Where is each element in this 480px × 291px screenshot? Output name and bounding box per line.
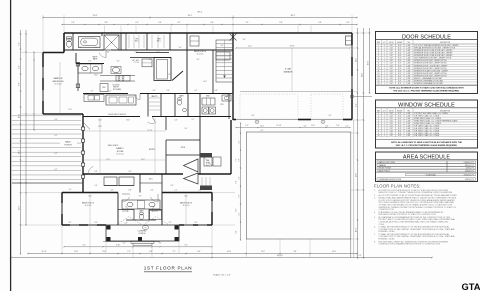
floor plan notes (374, 183, 458, 245)
svg-text:WIDTH: WIDTH (389, 110, 394, 112)
svg-text:528 SQ. FT.: 528 SQ. FT. (465, 170, 475, 172)
left dimension chain 2 (25, 30, 27, 225)
family room internal dim vertical b (154, 118, 156, 174)
kitchen counter lines (100, 75, 135, 77)
exterior wall wing right (211, 193, 213, 226)
svg-text:THK: THK (407, 110, 410, 112)
svg-text:HEIGHT: HEIGHT (397, 110, 402, 112)
svg-text:4.: 4. (374, 212, 376, 214)
exterior wall right mid section (230, 120, 232, 174)
svg-text:HEIGHT: HEIGHT (397, 42, 402, 44)
svg-text:DESCRIPTION: DESCRIPTION (440, 42, 450, 44)
diagonal entry wall (172, 71, 183, 81)
exterior wall wing top-right shoulder (162, 192, 212, 194)
svg-text:10: 10 (378, 135, 380, 137)
garage internal dim vertical (291, 48, 293, 91)
driveway right edge extension (350, 239, 352, 258)
svg-text:S.H. VINYL CLAD - U.L. LOW-E: S.H. VINYL CLAD - U.L. LOW-E (414, 134, 440, 137)
garage bonus room line (240, 91, 352, 93)
svg-text:1.: 1. (374, 190, 376, 192)
porch columns on family wall (81, 127, 85, 131)
svg-text:3.: 3. (374, 198, 376, 200)
left dimension chain 3 (33, 52, 35, 130)
door schedule table (376, 32, 478, 94)
right dimension chain (357, 28, 359, 258)
svg-text:NOTE: ALL EXTERIOR DOORS TO HA: NOTE: ALL EXTERIOR DOORS TO HAVE U-FACTO… (389, 86, 464, 89)
svg-text:HEIGHTS TO BE 8'-0" TONIGHT TH: HEIGHTS TO BE 8'-0" TONIGHT THESE NOTED … (379, 191, 454, 194)
entry door arc (152, 117, 156, 123)
fireplace triangle lower (184, 173, 199, 184)
fireplace hatched wall lower (200, 186, 212, 191)
toilet master (67, 38, 72, 41)
bottom dimension line lower (11, 257, 432, 259)
svg-text:1-3/4": 1-3/4" (406, 135, 411, 137)
wic shelf lines lower right (201, 177, 203, 190)
exterior wall master left (42, 53, 44, 115)
garage entry door arc (232, 93, 234, 100)
window wing left wall (61, 203, 63, 214)
exterior wall master bath left (63, 33, 65, 53)
windows wing bottom wall (70, 224, 79, 226)
garage overhead door dashed panel 2 (311, 94, 343, 119)
svg-text:CODE.: CODE. (379, 224, 385, 226)
svg-text:THE 2001 I.E.C.C. PROVIDE TE: THE 2001 I.E.C.C. PROVIDE TEMPERED GLASS… (393, 89, 460, 92)
svg-text:FEDERAL CODES.: FEDERAL CODES. (379, 238, 396, 241)
window garage right wall lower (351, 76, 353, 89)
area schedule table (376, 152, 478, 182)
exterior wall garage right (351, 33, 353, 120)
svg-text:WINDOW SCHEDULE: WINDOW SCHEDULE (398, 103, 455, 109)
half bath toilet (178, 98, 182, 101)
svg-text:1-3/4": 1-3/4" (406, 83, 411, 85)
kitchen island (106, 95, 136, 105)
garage interior dimension line (236, 47, 350, 49)
utility washer dryer (202, 107, 209, 114)
svg-text:2.: 2. (374, 195, 376, 197)
corridor wall to garage (228, 94, 230, 119)
shower with X (104, 35, 119, 50)
garage door mark D1 (255, 120, 259, 123)
hall vanity sink (112, 67, 119, 73)
window schedule table (376, 100, 478, 148)
master internal dim vertical (59, 62, 61, 113)
svg-text:MRK: MRK (377, 110, 380, 112)
fireplace triangle upper (184, 159, 199, 172)
keynote circle right wall (350, 95, 354, 99)
porch keynote oval (142, 226, 148, 230)
tub master (79, 37, 101, 48)
window master left wall lower (42, 90, 44, 101)
closet shelves her wic (151, 35, 153, 48)
svg-text:1: 1 (384, 135, 385, 137)
master vanity double sink (78, 64, 102, 73)
interior wall kitchen top (83, 93, 128, 95)
garage door mark D2 (321, 120, 325, 123)
staircase (216, 40, 233, 82)
bath2 toilet (140, 212, 144, 215)
linen closet box (190, 36, 199, 46)
kitchen sink (88, 96, 94, 101)
master bath door arc (105, 50, 107, 58)
svg-text:DOOR SCHEDULE: DOOR SCHEDULE (402, 34, 451, 40)
bedroom4 closet (216, 52, 230, 60)
svg-text:FLOOR PLAN NOTES:: FLOOR PLAN NOTES: (374, 183, 421, 188)
svg-text:8'-0": 8'-0" (398, 135, 402, 137)
interior wall tub right / closet (101, 33, 103, 36)
back porch deck boards (12, 115, 81, 117)
bath2 tub (150, 211, 162, 220)
interior wall toilet room (72, 33, 74, 50)
bedroom2 right wall (117, 193, 119, 226)
svg-text:2001 I.E.C.C. PROVIDE TEMPER: 2001 I.E.C.C. PROVIDE TEMPERED GLASS WHE… (396, 144, 458, 147)
family room door arc (88, 173, 96, 175)
exterior wall wing left (61, 193, 63, 226)
pantry shelves (149, 97, 160, 99)
bottom dimension line upper (28, 253, 357, 255)
svg-text:DESCRIPTION: DESCRIPTION (440, 110, 450, 112)
svg-text:THK: THK (407, 42, 410, 44)
svg-text:NOTE: ALL WINDOWS TO HAVE U-FA: NOTE: ALL WINDOWS TO HAVE U-FACTOR IN AC… (391, 141, 462, 144)
kitchen counter left (84, 95, 104, 102)
porch roof gable dashed left (116, 217, 142, 226)
linen closet hall (142, 59, 152, 67)
svg-text:INTERIOR OVERHEAD DOOR UNIT: INTERIOR OVERHEAD DOOR UNIT (414, 82, 444, 85)
interior wing hall closets (104, 177, 117, 186)
interior wall x166 family right (165, 117, 167, 131)
driveway outline (246, 132, 350, 239)
interior wall x200 vertical (199, 117, 201, 175)
interior wall closet divider a (146, 33, 148, 50)
svg-text:3,943 SQ. FT.: 3,943 SQ. FT. (464, 174, 475, 176)
svg-text:8.: 8. (374, 241, 376, 243)
junction X marker garage corner (230, 34, 237, 41)
exterior wall top (64, 32, 352, 34)
interior wall y116 family top (83, 116, 140, 118)
svg-text:16: 16 (378, 83, 380, 85)
core west wall with pilasters (77, 62, 79, 91)
exterior wall wing bottom (62, 224, 106, 226)
sheet border left (10, 0, 12, 291)
family room internal dim horizontal b (83, 159, 166, 161)
svg-text:6.: 6. (374, 227, 376, 229)
porch roof gable dashed right (143, 217, 169, 226)
back porch bottom edge (12, 182, 83, 184)
front porch steps (131, 241, 154, 243)
family room internal dim horizontal a (83, 130, 166, 132)
svg-text:7.: 7. (374, 234, 376, 236)
svg-text:QTY: QTY (383, 110, 386, 112)
closet shelves his wic (128, 35, 130, 48)
svg-text:5.: 5. (374, 217, 376, 219)
svg-text:BACK PORCH: BACK PORCH (379, 169, 391, 172)
half bath sink (183, 109, 187, 112)
garage apron dimension (236, 127, 350, 129)
svg-text:MRK: MRK (377, 42, 380, 44)
svg-text:ALL FLOOR TRUSSES TO BE 14" W-: ALL FLOOR TRUSSES TO BE 14" W-DEPTH AS D… (379, 194, 458, 197)
svg-text:GTAR: GTAR (462, 282, 480, 291)
interior wall bath strip bottom (64, 49, 104, 51)
top dimension line outer (43, 17, 357, 19)
exterior wall porch right / family left (82, 114, 84, 192)
exterior wall family bottom (83, 173, 183, 175)
interior wing wic walls (139, 174, 141, 193)
hall band walls (136, 52, 169, 54)
svg-text:UNFINISHED BONUS ROOM: UNFINISHED BONUS ROOM (379, 179, 402, 181)
jack jill vanity (122, 200, 160, 209)
front porch outline (106, 225, 179, 241)
fridge (100, 84, 108, 92)
interior wall closet divider b (169, 33, 171, 50)
svg-text:MAIN FLOOR LIVING: MAIN FLOOR LIVING (379, 161, 396, 164)
svg-text:1: 1 (384, 83, 385, 85)
svg-text:2'-8": 2'-8" (390, 83, 394, 85)
window garage right wall upper (351, 45, 353, 57)
svg-text:AREA SCHEDULE: AREA SCHEDULE (403, 155, 450, 161)
svg-text:GARAGE: GARAGE (379, 164, 387, 167)
kitchen door arc (139, 94, 141, 100)
svg-text:FEDERAL CODES.: FEDERAL CODES. (379, 230, 396, 233)
wing right extension lines (212, 192, 235, 194)
bedroom3 internal dim vertical (185, 193, 187, 225)
svg-text:2'-8": 2'-8" (390, 135, 394, 137)
front porch columns (107, 226, 111, 230)
garage overhead door dashed panel 1 (240, 94, 298, 119)
svg-text:CONSTRUCTION.: CONSTRUCTION. (379, 209, 395, 211)
svg-text:WIDTH: WIDTH (389, 42, 394, 44)
garage right wall cabinet (346, 36, 352, 45)
top dimension line inner (62, 24, 357, 26)
exterior wall wing top-left shoulder (62, 192, 118, 194)
svg-text:CONSTRUCTION & FRAMING METHODS: CONSTRUCTION & FRAMING METHODS PRIOR TO … (379, 243, 442, 246)
ac unit closet (204, 157, 212, 166)
driveway side dimension chain (240, 123, 242, 240)
interior wall shower right (120, 33, 122, 50)
laundry sink (222, 95, 231, 101)
svg-text:318 SQ. FT.: 318 SQ. FT. (465, 179, 475, 181)
hall shower room (154, 58, 171, 81)
porch door diagonal (83, 122, 90, 130)
svg-text:QTY: QTY (383, 42, 386, 44)
svg-text:8'-0": 8'-0" (398, 83, 402, 85)
interior wall x166 lower (165, 140, 167, 174)
jack and jill walls (118, 209, 134, 211)
bedroom2 door arc (122, 193, 130, 195)
left dimension chain (20, 30, 22, 254)
right dimension chain 3 (369, 28, 371, 93)
interior wall halfbath (174, 94, 176, 117)
interior wall stairs left room (212, 50, 214, 94)
bath2 door arcs (122, 210, 128, 212)
svg-text:CODES AS ADOPTED & THE INTERNA: CODES AS ADOPTED & THE INTERNATIONAL ONE… (379, 221, 449, 224)
garage left wall (232, 33, 234, 120)
mud room bench cubbies (202, 98, 215, 105)
bedroom2 internal dim vertical (89, 193, 91, 225)
back porch label (60, 140, 77, 147)
porch bottom dimension (103, 241, 160, 243)
interior wall pantry right (147, 94, 149, 117)
fireplace hatched wall upper (200, 153, 212, 158)
interior wall mud left (199, 94, 201, 117)
interior wall stor (166, 139, 200, 141)
svg-text:TOTAL SLAB: TOTAL SLAB (425, 173, 436, 176)
window wing right wall (211, 201, 213, 212)
exterior wall master bottom (43, 113, 83, 115)
bedroom3 left wall (161, 193, 163, 226)
window master left wall upper (42, 67, 44, 78)
family room internal dim vertical a (99, 118, 101, 174)
bedroom3 door arc (157, 194, 159, 202)
interior wall vanity ledge (76, 63, 104, 65)
svg-text:BUILDER/CONTRACTOR PRIOR TO ST: BUILDER/CONTRACTOR PRIOR TO START OF CON… (379, 213, 437, 216)
garage door opening lines (236, 119, 298, 121)
kitchen range burners (116, 76, 130, 82)
exterior wall master step (43, 52, 64, 54)
extension lines to dimension chains (42, 15, 44, 53)
right dimension chain 2 (363, 28, 365, 258)
interior wall bedroom4 left (186, 33, 188, 94)
exterior wall garage bottom with door openings (233, 119, 236, 121)
